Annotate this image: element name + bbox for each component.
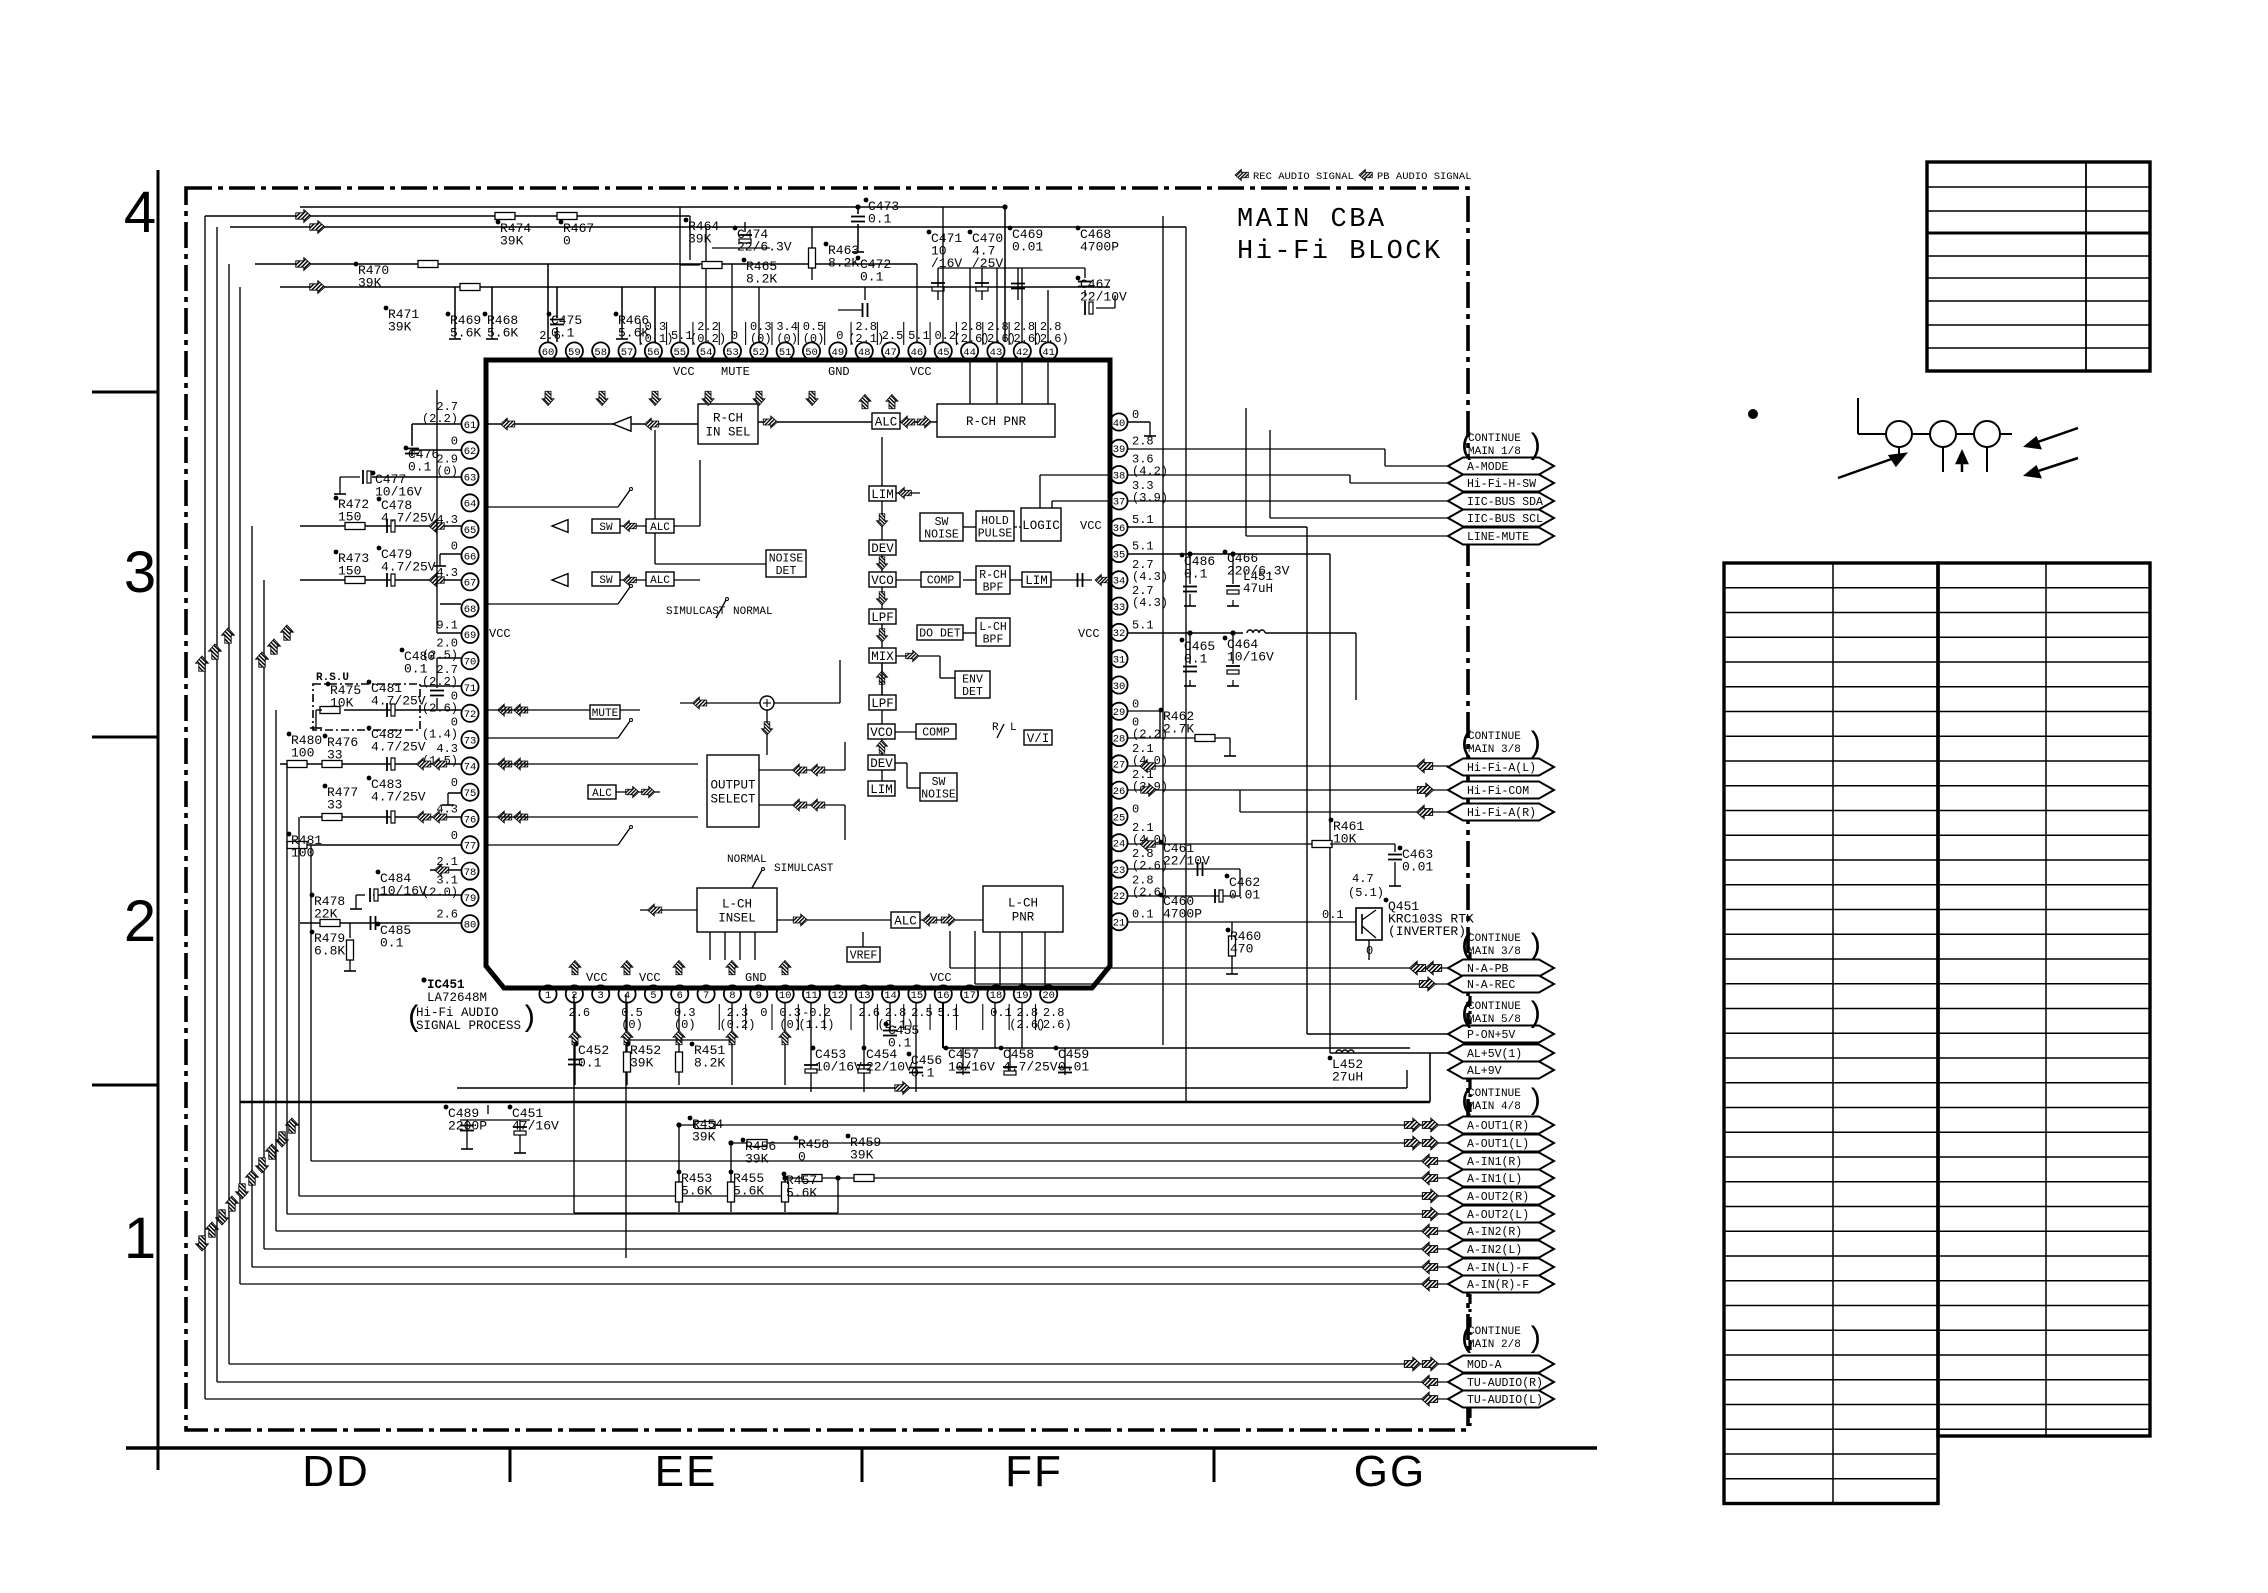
svg-text:Hi-Fi-COM: Hi-Fi-COM bbox=[1467, 785, 1529, 798]
svg-text:8.2K: 8.2K bbox=[694, 1056, 725, 1071]
svg-text:59: 59 bbox=[568, 347, 581, 359]
svg-text:(0): (0) bbox=[776, 332, 798, 346]
svg-text:39K: 39K bbox=[388, 320, 412, 335]
svg-text:MAIN CBA: MAIN CBA bbox=[1237, 205, 1387, 235]
svg-text:SW: SW bbox=[935, 516, 949, 529]
svg-text:ALC: ALC bbox=[650, 522, 670, 534]
svg-text:8.2K: 8.2K bbox=[828, 256, 859, 271]
svg-text:A-OUT1(R): A-OUT1(R) bbox=[1467, 1120, 1529, 1133]
svg-text:A-IN2(L): A-IN2(L) bbox=[1467, 1244, 1522, 1257]
svg-text:52: 52 bbox=[752, 347, 765, 359]
svg-text:MAIN 5/8: MAIN 5/8 bbox=[1468, 1014, 1521, 1026]
svg-text:VCC: VCC bbox=[639, 971, 661, 985]
svg-text:SIMULCAST: SIMULCAST bbox=[774, 863, 834, 875]
svg-text:R-CH PNR: R-CH PNR bbox=[966, 415, 1027, 429]
svg-text:VCC: VCC bbox=[1080, 519, 1102, 533]
svg-text:73: 73 bbox=[464, 735, 477, 747]
svg-text:39K: 39K bbox=[850, 1148, 874, 1163]
svg-text:69: 69 bbox=[464, 630, 477, 642]
svg-text:7: 7 bbox=[703, 990, 709, 1002]
svg-text:GG: GG bbox=[1354, 1447, 1426, 1496]
svg-text:): ) bbox=[1526, 1085, 1544, 1119]
svg-text:28: 28 bbox=[1113, 733, 1126, 745]
svg-text:41: 41 bbox=[1042, 347, 1055, 359]
svg-text:5.6K: 5.6K bbox=[786, 1186, 817, 1201]
svg-text:PB AUDIO SIGNAL: PB AUDIO SIGNAL bbox=[1377, 171, 1472, 183]
svg-text:VCC: VCC bbox=[489, 627, 511, 641]
svg-text:L-CH: L-CH bbox=[722, 898, 752, 912]
svg-text:SELECT: SELECT bbox=[710, 792, 756, 806]
svg-text:A-IN1(R): A-IN1(R) bbox=[1467, 1156, 1522, 1169]
svg-text:2200P: 2200P bbox=[448, 1119, 487, 1134]
svg-text:SW: SW bbox=[599, 522, 613, 534]
svg-text:MUTE: MUTE bbox=[721, 365, 750, 379]
svg-text:Hi-Fi-H-SW: Hi-Fi-H-SW bbox=[1467, 478, 1536, 491]
svg-text:71: 71 bbox=[464, 683, 477, 695]
svg-text:NOISE: NOISE bbox=[921, 788, 956, 801]
svg-text:470: 470 bbox=[1230, 942, 1253, 957]
svg-text:6.8K: 6.8K bbox=[314, 944, 345, 959]
svg-text:5.1: 5.1 bbox=[1132, 618, 1154, 632]
svg-text:A-OUT1(L): A-OUT1(L) bbox=[1467, 1138, 1529, 1151]
svg-text:4.7/25V: 4.7/25V bbox=[371, 740, 426, 755]
svg-text:9: 9 bbox=[756, 990, 762, 1002]
svg-text:VCC: VCC bbox=[586, 971, 608, 985]
svg-text:(1.4): (1.4) bbox=[422, 728, 458, 742]
svg-text:39K: 39K bbox=[630, 1056, 654, 1071]
svg-text:78: 78 bbox=[464, 867, 477, 879]
svg-text:39: 39 bbox=[1113, 444, 1126, 456]
svg-text:26: 26 bbox=[1113, 786, 1126, 798]
svg-text:MUTE: MUTE bbox=[592, 708, 619, 720]
svg-text:LPF: LPF bbox=[871, 697, 894, 711]
svg-text:22/10V: 22/10V bbox=[866, 1060, 913, 1075]
svg-text:39K: 39K bbox=[745, 1152, 769, 1167]
svg-text:10/16V: 10/16V bbox=[948, 1060, 995, 1075]
svg-text:A-OUT2(R): A-OUT2(R) bbox=[1467, 1191, 1529, 1204]
svg-text:80: 80 bbox=[464, 920, 477, 932]
svg-text:0: 0 bbox=[836, 329, 843, 343]
svg-text:0: 0 bbox=[451, 434, 458, 448]
svg-text:22/6.3V: 22/6.3V bbox=[737, 240, 792, 255]
svg-text:(: ( bbox=[405, 1002, 423, 1036]
svg-text:22: 22 bbox=[1113, 891, 1126, 903]
svg-text:LIM: LIM bbox=[870, 783, 893, 797]
svg-text:ALC: ALC bbox=[875, 416, 898, 430]
svg-text:4: 4 bbox=[624, 990, 630, 1002]
svg-text:62: 62 bbox=[464, 446, 477, 458]
svg-text:): ) bbox=[1526, 430, 1544, 464]
svg-text:22/10V: 22/10V bbox=[1080, 290, 1127, 305]
svg-text:(5.1): (5.1) bbox=[1348, 886, 1384, 900]
svg-text:33: 33 bbox=[1113, 602, 1126, 614]
svg-text:4: 4 bbox=[124, 180, 156, 245]
svg-text:49: 49 bbox=[832, 347, 845, 359]
svg-text:35: 35 bbox=[1113, 549, 1126, 561]
svg-text:NOISE: NOISE bbox=[769, 552, 804, 565]
svg-text:5.1: 5.1 bbox=[937, 1006, 959, 1020]
svg-text:IN SEL: IN SEL bbox=[705, 425, 750, 439]
svg-text:2: 2 bbox=[124, 889, 156, 954]
svg-text:10/16V: 10/16V bbox=[380, 884, 427, 899]
svg-text:): ) bbox=[520, 1002, 538, 1036]
svg-text:67: 67 bbox=[464, 578, 477, 590]
svg-text:CONTINUE: CONTINUE bbox=[1468, 933, 1521, 945]
svg-text:16: 16 bbox=[937, 990, 950, 1002]
svg-text:5.6K: 5.6K bbox=[450, 326, 481, 341]
svg-text:74: 74 bbox=[464, 762, 477, 774]
svg-text:LIM: LIM bbox=[1025, 574, 1048, 588]
svg-text:37: 37 bbox=[1113, 497, 1126, 509]
svg-text:CONTINUE: CONTINUE bbox=[1468, 433, 1521, 445]
svg-text:0: 0 bbox=[798, 1150, 806, 1165]
svg-text:VCC: VCC bbox=[673, 365, 695, 379]
svg-text:5.1: 5.1 bbox=[1132, 540, 1154, 554]
svg-text:150: 150 bbox=[338, 564, 361, 579]
svg-text:HOLD: HOLD bbox=[981, 515, 1009, 528]
svg-text:(2.2): (2.2) bbox=[422, 675, 458, 689]
svg-text:42: 42 bbox=[1016, 347, 1029, 359]
svg-text:A-OUT2(L): A-OUT2(L) bbox=[1467, 1209, 1529, 1222]
svg-text:LPF: LPF bbox=[871, 611, 894, 625]
svg-text:L-CH: L-CH bbox=[979, 621, 1007, 634]
svg-text:A-IN(R)-F: A-IN(R)-F bbox=[1467, 1279, 1529, 1292]
svg-text:10K: 10K bbox=[1333, 832, 1357, 847]
svg-text:21: 21 bbox=[1113, 918, 1126, 930]
svg-text:(0.2): (0.2) bbox=[719, 1018, 755, 1032]
svg-text:39K: 39K bbox=[692, 1130, 716, 1145]
svg-text:34: 34 bbox=[1113, 576, 1126, 588]
svg-text:55: 55 bbox=[673, 347, 686, 359]
svg-text:0.1: 0.1 bbox=[1322, 908, 1344, 922]
svg-text:2.6: 2.6 bbox=[569, 1006, 591, 1020]
svg-text:Hi-Fi BLOCK: Hi-Fi BLOCK bbox=[1237, 237, 1443, 267]
svg-text:39K: 39K bbox=[500, 234, 524, 249]
svg-text:24: 24 bbox=[1113, 839, 1126, 851]
svg-text:NORMAL: NORMAL bbox=[727, 854, 767, 866]
svg-text:5.6K: 5.6K bbox=[618, 326, 649, 341]
svg-text:50: 50 bbox=[805, 347, 818, 359]
svg-text:VCO: VCO bbox=[870, 726, 893, 740]
svg-text:NORMAL: NORMAL bbox=[733, 606, 773, 618]
svg-text:ALC: ALC bbox=[894, 915, 917, 929]
svg-text:N-A-REC: N-A-REC bbox=[1467, 979, 1515, 992]
svg-text:0.1: 0.1 bbox=[551, 326, 575, 341]
svg-text:5.6K: 5.6K bbox=[681, 1184, 712, 1199]
svg-text:36: 36 bbox=[1113, 523, 1126, 535]
svg-text:68: 68 bbox=[464, 604, 477, 616]
svg-text:47/16V: 47/16V bbox=[512, 1119, 559, 1134]
svg-text:39K: 39K bbox=[358, 276, 382, 291]
svg-text:22/10V: 22/10V bbox=[1163, 854, 1210, 869]
svg-text:8.2K: 8.2K bbox=[746, 272, 777, 287]
svg-text:76: 76 bbox=[464, 814, 477, 826]
svg-text:EE: EE bbox=[655, 1447, 718, 1496]
svg-text:IC451: IC451 bbox=[427, 978, 465, 992]
svg-text:NOISE: NOISE bbox=[924, 528, 959, 541]
svg-text:BPF: BPF bbox=[983, 581, 1004, 594]
svg-text:AL+9V: AL+9V bbox=[1467, 1065, 1502, 1078]
svg-text:5.6K: 5.6K bbox=[733, 1184, 764, 1199]
svg-text:100: 100 bbox=[291, 746, 314, 761]
svg-text:/16V: /16V bbox=[931, 256, 962, 271]
svg-text:66: 66 bbox=[464, 551, 477, 563]
svg-text:1: 1 bbox=[124, 1206, 156, 1271]
svg-text:COMP: COMP bbox=[927, 575, 955, 588]
svg-text:0.1: 0.1 bbox=[578, 1056, 602, 1071]
svg-text:60: 60 bbox=[542, 347, 555, 359]
svg-text:MOD-A: MOD-A bbox=[1467, 1359, 1502, 1372]
svg-text:(0): (0) bbox=[803, 332, 825, 346]
svg-text:DO DET: DO DET bbox=[919, 628, 961, 641]
svg-text:13: 13 bbox=[858, 990, 871, 1002]
svg-text:39K: 39K bbox=[688, 232, 712, 247]
svg-text:L: L bbox=[1010, 722, 1017, 734]
svg-text:DET: DET bbox=[776, 565, 797, 578]
svg-text:INSEL: INSEL bbox=[718, 911, 756, 925]
svg-text:(INVERTER): (INVERTER) bbox=[1388, 924, 1466, 939]
svg-text:DEV: DEV bbox=[870, 757, 893, 771]
svg-text:61: 61 bbox=[464, 420, 477, 432]
svg-text:IIC-BUS SDA: IIC-BUS SDA bbox=[1467, 496, 1543, 509]
svg-text:FF: FF bbox=[1005, 1447, 1063, 1496]
svg-text:32: 32 bbox=[1113, 628, 1126, 640]
svg-text:0.1: 0.1 bbox=[408, 460, 432, 475]
svg-text:0.1: 0.1 bbox=[888, 1036, 912, 1051]
svg-text:51: 51 bbox=[779, 347, 792, 359]
svg-text:15: 15 bbox=[911, 990, 924, 1002]
svg-text:2.7K: 2.7K bbox=[1163, 722, 1194, 737]
svg-text:REC AUDIO SIGNAL: REC AUDIO SIGNAL bbox=[1253, 171, 1354, 183]
svg-text:CONTINUE: CONTINUE bbox=[1468, 1001, 1521, 1013]
svg-text:AL+5V(1): AL+5V(1) bbox=[1467, 1048, 1522, 1061]
svg-text:MAIN 1/8: MAIN 1/8 bbox=[1468, 446, 1521, 458]
svg-text:L-CH: L-CH bbox=[1008, 897, 1038, 911]
svg-text:SIGNAL PROCESS: SIGNAL PROCESS bbox=[416, 1019, 521, 1033]
svg-text:0.01: 0.01 bbox=[1058, 1060, 1089, 1075]
svg-text:A-IN1(L): A-IN1(L) bbox=[1467, 1173, 1522, 1186]
svg-text:4.7/25V: 4.7/25V bbox=[1003, 1060, 1058, 1075]
svg-text:33: 33 bbox=[327, 748, 343, 763]
svg-text:2.5: 2.5 bbox=[882, 329, 904, 343]
svg-text:0.1: 0.1 bbox=[404, 662, 428, 677]
svg-text:): ) bbox=[1526, 998, 1544, 1032]
svg-text:27uH: 27uH bbox=[1332, 1070, 1363, 1085]
svg-text:DEV: DEV bbox=[871, 542, 894, 556]
svg-text:ENV: ENV bbox=[962, 673, 983, 686]
svg-text:Hi-Fi-A(R): Hi-Fi-A(R) bbox=[1467, 807, 1536, 820]
svg-text:TU-AUDIO(R): TU-AUDIO(R) bbox=[1467, 1377, 1543, 1390]
svg-text:45: 45 bbox=[937, 347, 950, 359]
svg-text:47: 47 bbox=[884, 347, 897, 359]
svg-text:56: 56 bbox=[647, 347, 660, 359]
svg-text:5.6K: 5.6K bbox=[487, 326, 518, 341]
svg-text:0.01: 0.01 bbox=[1402, 860, 1433, 875]
svg-text:(0): (0) bbox=[621, 1018, 643, 1032]
svg-text:): ) bbox=[1526, 728, 1544, 762]
svg-text:25: 25 bbox=[1113, 812, 1126, 824]
svg-text:10K: 10K bbox=[330, 696, 354, 711]
svg-text:27: 27 bbox=[1113, 760, 1126, 772]
svg-text:5: 5 bbox=[650, 990, 656, 1002]
svg-text:(2.0): (2.0) bbox=[422, 885, 458, 899]
svg-text:ALC: ALC bbox=[650, 575, 670, 587]
svg-text:V/I: V/I bbox=[1027, 732, 1050, 746]
svg-text:4700P: 4700P bbox=[1163, 907, 1202, 922]
svg-text:N-A-PB: N-A-PB bbox=[1467, 963, 1509, 976]
svg-text:Hi-Fi-A(L): Hi-Fi-A(L) bbox=[1467, 762, 1536, 775]
svg-text:PULSE: PULSE bbox=[978, 527, 1013, 540]
svg-text:): ) bbox=[1526, 1323, 1544, 1357]
svg-text:ALC: ALC bbox=[592, 788, 612, 800]
svg-text:1: 1 bbox=[545, 990, 551, 1002]
svg-text:A-IN(L)-F: A-IN(L)-F bbox=[1467, 1262, 1529, 1275]
svg-text:4.7: 4.7 bbox=[1352, 872, 1374, 886]
svg-text:VCC: VCC bbox=[910, 365, 932, 379]
svg-text:0: 0 bbox=[1132, 408, 1139, 422]
svg-text:14: 14 bbox=[884, 990, 897, 1002]
svg-text:4700P: 4700P bbox=[1080, 240, 1119, 255]
svg-text:CONTINUE: CONTINUE bbox=[1468, 731, 1521, 743]
svg-text:10: 10 bbox=[779, 990, 792, 1002]
svg-text:CONTINUE: CONTINUE bbox=[1468, 1088, 1521, 1100]
svg-text:22K: 22K bbox=[314, 907, 338, 922]
svg-text:0.01: 0.01 bbox=[1012, 240, 1043, 255]
svg-text:18: 18 bbox=[990, 990, 1003, 1002]
svg-text:46: 46 bbox=[911, 347, 924, 359]
svg-text:29: 29 bbox=[1113, 707, 1126, 719]
svg-text:DD: DD bbox=[302, 1447, 370, 1496]
svg-text:53: 53 bbox=[726, 347, 739, 359]
svg-text:23: 23 bbox=[1113, 865, 1126, 877]
svg-text:SW: SW bbox=[599, 575, 613, 587]
svg-text:MAIN 3/8: MAIN 3/8 bbox=[1468, 744, 1521, 756]
svg-text:BPF: BPF bbox=[983, 633, 1004, 646]
svg-text:57: 57 bbox=[621, 347, 634, 359]
svg-text:79: 79 bbox=[464, 893, 477, 905]
svg-text:17: 17 bbox=[963, 990, 976, 1002]
svg-text:19: 19 bbox=[1016, 990, 1029, 1002]
svg-text:(0): (0) bbox=[750, 332, 772, 346]
svg-text:10/16V: 10/16V bbox=[1227, 650, 1274, 665]
svg-text:0.1: 0.1 bbox=[868, 212, 892, 227]
svg-text:0: 0 bbox=[760, 1006, 767, 1020]
svg-text:R: R bbox=[992, 722, 999, 734]
svg-text:0.1: 0.1 bbox=[911, 1066, 935, 1081]
svg-text:LIM: LIM bbox=[871, 488, 894, 502]
svg-text:VREF: VREF bbox=[850, 950, 878, 963]
svg-text:9.1: 9.1 bbox=[436, 618, 458, 632]
svg-text:(0.2): (0.2) bbox=[690, 332, 726, 346]
svg-text:VCO: VCO bbox=[871, 574, 894, 588]
svg-text:LOGIC: LOGIC bbox=[1022, 519, 1060, 533]
svg-text:33: 33 bbox=[327, 798, 343, 813]
svg-text:(2.6): (2.6) bbox=[422, 701, 458, 715]
svg-text:4.7/25V: 4.7/25V bbox=[371, 694, 426, 709]
svg-text:R-CH: R-CH bbox=[979, 569, 1007, 582]
svg-text:100: 100 bbox=[291, 846, 314, 861]
svg-text:54: 54 bbox=[700, 347, 713, 359]
svg-text:58: 58 bbox=[594, 347, 607, 359]
svg-text:8: 8 bbox=[729, 990, 735, 1002]
svg-text:150: 150 bbox=[338, 510, 361, 525]
svg-text:70: 70 bbox=[464, 657, 477, 669]
svg-text:(0): (0) bbox=[674, 1018, 696, 1032]
svg-text:10/16V: 10/16V bbox=[815, 1060, 862, 1075]
svg-text:4.7/25V: 4.7/25V bbox=[371, 790, 426, 805]
svg-text:): ) bbox=[1526, 930, 1544, 964]
svg-text:11: 11 bbox=[805, 990, 818, 1002]
svg-text:VCC: VCC bbox=[930, 971, 952, 985]
svg-text:0.1: 0.1 bbox=[1184, 652, 1208, 667]
svg-text:0: 0 bbox=[451, 540, 458, 554]
svg-text:65: 65 bbox=[464, 525, 477, 537]
svg-text:48: 48 bbox=[858, 347, 871, 359]
svg-text:IIC-BUS SCL: IIC-BUS SCL bbox=[1467, 513, 1543, 526]
svg-text:5.1: 5.1 bbox=[1132, 513, 1154, 527]
svg-text:(1.1): (1.1) bbox=[798, 1018, 834, 1032]
svg-text:0.1: 0.1 bbox=[1184, 567, 1208, 582]
svg-text:(2.1): (2.1) bbox=[848, 332, 884, 346]
svg-text:TU-AUDIO(L): TU-AUDIO(L) bbox=[1467, 1394, 1543, 1407]
svg-text:63: 63 bbox=[464, 472, 477, 484]
svg-text:(2.6): (2.6) bbox=[1036, 1018, 1072, 1032]
svg-text:GND: GND bbox=[745, 971, 767, 985]
svg-text:2.5: 2.5 bbox=[911, 1006, 933, 1020]
svg-text:38: 38 bbox=[1113, 470, 1126, 482]
svg-text:0: 0 bbox=[451, 829, 458, 843]
svg-text:44: 44 bbox=[963, 347, 976, 359]
svg-text:A-IN2(R): A-IN2(R) bbox=[1467, 1226, 1522, 1239]
svg-text:0: 0 bbox=[451, 776, 458, 790]
svg-text:GND: GND bbox=[828, 365, 850, 379]
svg-text:0: 0 bbox=[1132, 697, 1139, 711]
svg-text:47uH: 47uH bbox=[1243, 582, 1273, 596]
svg-text:77: 77 bbox=[464, 841, 477, 853]
svg-text:72: 72 bbox=[464, 709, 477, 721]
svg-text:LA72648M: LA72648M bbox=[427, 991, 487, 1005]
svg-text:0: 0 bbox=[563, 234, 571, 249]
svg-text:0: 0 bbox=[1366, 944, 1373, 958]
svg-text:CONTINUE: CONTINUE bbox=[1468, 1326, 1521, 1338]
svg-text:31: 31 bbox=[1113, 655, 1126, 667]
svg-text:Hi-Fi AUDIO: Hi-Fi AUDIO bbox=[416, 1006, 499, 1020]
svg-text:R-CH: R-CH bbox=[713, 412, 743, 426]
svg-text:/25V: /25V bbox=[972, 256, 1003, 271]
svg-text:3: 3 bbox=[124, 540, 156, 605]
svg-text:0.1: 0.1 bbox=[1132, 908, 1154, 922]
svg-text:30: 30 bbox=[1113, 681, 1126, 693]
svg-text:64: 64 bbox=[464, 499, 477, 511]
svg-text:MAIN 4/8: MAIN 4/8 bbox=[1468, 1101, 1521, 1113]
svg-text:OUTPUT: OUTPUT bbox=[710, 779, 756, 793]
svg-text:0.01: 0.01 bbox=[1229, 888, 1260, 903]
svg-text:LINE-MUTE: LINE-MUTE bbox=[1467, 531, 1529, 544]
svg-text:3: 3 bbox=[598, 990, 604, 1002]
svg-text:MAIN 3/8: MAIN 3/8 bbox=[1468, 946, 1521, 958]
svg-text:4.7/25V: 4.7/25V bbox=[381, 511, 436, 526]
svg-text:DET: DET bbox=[962, 686, 983, 699]
svg-text:SW: SW bbox=[932, 776, 946, 789]
svg-text:MAIN 2/8: MAIN 2/8 bbox=[1468, 1339, 1521, 1351]
svg-text:MIX: MIX bbox=[871, 650, 894, 664]
svg-text:12: 12 bbox=[832, 990, 845, 1002]
svg-text:VCC: VCC bbox=[1078, 627, 1100, 641]
svg-text:43: 43 bbox=[990, 347, 1003, 359]
svg-text:40: 40 bbox=[1113, 418, 1126, 430]
svg-text:5.1: 5.1 bbox=[908, 329, 930, 343]
svg-text:75: 75 bbox=[464, 788, 477, 800]
